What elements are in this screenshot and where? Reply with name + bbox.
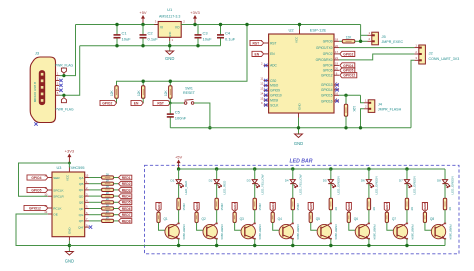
transistor Q8 PMBT3904 xyxy=(431,224,445,238)
svg-text:RST: RST xyxy=(157,101,164,105)
svg-text:PWR_FLAG: PWR_FLAG xyxy=(55,64,74,68)
wire LED to resistor column 3 xyxy=(254,184,256,199)
svg-text:SRCLK: SRCLK xyxy=(53,188,64,192)
svg-text:C5: C5 xyxy=(175,110,181,115)
svg-text:SRCLR: SRCLR xyxy=(53,195,64,199)
svg-text:GPIO2: GPIO2 xyxy=(102,101,112,105)
U3 pin 4 QE xyxy=(85,201,89,203)
wire resistor to collector column 4 xyxy=(292,210,294,224)
U2 pin 4 GPIO16 xyxy=(334,100,339,102)
global label RED6 xyxy=(119,206,132,211)
ground symbol under U2 xyxy=(298,131,300,134)
U2 pin 9 SCLK xyxy=(264,104,269,106)
svg-text:EN: EN xyxy=(270,52,275,56)
global label RED8 xyxy=(119,219,132,224)
shift register U3 74HC595 xyxy=(52,172,85,237)
svg-text:GND: GND xyxy=(65,259,74,264)
svg-text:U2: U2 xyxy=(288,28,294,33)
svg-text:14: 14 xyxy=(260,91,264,95)
svg-text:GPIO12: GPIO12 xyxy=(29,206,41,210)
power +3V3 (regulator output) xyxy=(194,18,196,25)
svg-text:C3: C3 xyxy=(203,31,209,36)
no-connect U2 CS0 xyxy=(264,79,267,82)
LED D8 LED_GREEN xyxy=(444,169,446,179)
regulator U1 AMS1117-3.3 xyxy=(158,22,181,38)
svg-text:Q6: Q6 xyxy=(354,217,358,221)
wire QC to resistor xyxy=(89,189,102,191)
no-connect J3 shield xyxy=(34,122,37,125)
svg-text:PMBT3904: PMBT3904 xyxy=(258,225,262,240)
global label RED4 xyxy=(119,194,132,199)
U2 pin 6 GPIO12 xyxy=(334,74,339,76)
svg-text:GPIO2: GPIO2 xyxy=(343,52,353,56)
svg-text:+5V: +5V xyxy=(175,154,183,159)
wire LED bar gnd rail xyxy=(69,245,445,247)
no-connect U2 GPIO9 xyxy=(264,89,267,92)
U3 pin 13 OE xyxy=(48,213,52,215)
svg-text:GPIO0: GPIO0 xyxy=(323,40,333,44)
svg-text:Q5: Q5 xyxy=(316,217,320,221)
svg-text:12K: 12K xyxy=(164,89,168,96)
svg-text:Q3: Q3 xyxy=(240,217,244,221)
svg-text:EN: EN xyxy=(134,101,139,105)
wire resistor to RED2 label xyxy=(114,183,119,185)
U3 pin 10 SRCLR xyxy=(48,195,52,197)
wire emitter Q5 to gnd rail xyxy=(330,239,332,246)
global label GPIO4 at U2 xyxy=(340,63,355,68)
resistor 2K (QC) xyxy=(102,188,114,191)
svg-text:D1: D1 xyxy=(171,179,175,183)
svg-text:GPIO4: GPIO4 xyxy=(31,176,41,180)
resistor 2K column 5 xyxy=(329,198,332,210)
svg-text:D4: D4 xyxy=(285,179,289,183)
wire base resistor to Q6 base xyxy=(349,223,359,231)
wire VBUS J3 pin1 to +5V rail xyxy=(60,25,76,76)
svg-text:150R: 150R xyxy=(220,202,224,210)
wire LED to resistor column 4 xyxy=(292,184,294,199)
connector J5 JMPR_EXEC xyxy=(372,32,379,45)
svg-text:PMBT3904: PMBT3904 xyxy=(448,225,452,240)
no-connect U2 GPIO16 xyxy=(335,99,338,102)
global label RED7 xyxy=(119,212,132,217)
svg-text:GPIO10: GPIO10 xyxy=(270,94,282,98)
wire resistor to RED5 label xyxy=(114,201,119,203)
svg-text:LED_GREEN: LED_GREEN xyxy=(413,176,417,194)
svg-text:QH: QH xyxy=(79,219,84,223)
svg-text:LED_GREEN: LED_GREEN xyxy=(451,176,455,194)
ground symbol under U1 xyxy=(169,48,171,51)
svg-text:0.1uF: 0.1uF xyxy=(148,37,159,42)
no-connect J3 pin 2 xyxy=(59,79,62,82)
wire LED to resistor column 6 xyxy=(368,184,370,199)
svg-text:PMBT3904: PMBT3904 xyxy=(220,225,224,240)
resistor R4 12K (RST pull-up) xyxy=(169,81,171,86)
transistor Q7 PMBT3904 xyxy=(393,224,407,238)
svg-text:GPIO15: GPIO15 xyxy=(321,94,333,98)
resistor R3 12K (EN pull-up) xyxy=(142,81,144,86)
svg-text:RED6: RED6 xyxy=(347,203,351,212)
wire base resistor to Q8 base xyxy=(425,223,435,231)
LED D5 LED_GREEN xyxy=(330,169,332,179)
svg-text:2K: 2K xyxy=(106,203,110,207)
wire resistor to collector column 7 xyxy=(406,210,408,224)
svg-text:JMPR_EXEC: JMPR_EXEC xyxy=(382,40,404,44)
svg-text:D6: D6 xyxy=(361,179,365,183)
resistor 2K column 7 xyxy=(405,198,408,210)
svg-text:Q8: Q8 xyxy=(430,217,434,221)
global label RED5 at base xyxy=(308,203,313,212)
U2 pin 18 GPIO0 xyxy=(334,40,339,42)
svg-text:RED1: RED1 xyxy=(157,203,161,212)
svg-text:2K: 2K xyxy=(106,179,110,183)
global label GPIO5 at U2 xyxy=(340,68,355,73)
U1 pin 1 GND stub and wire down xyxy=(169,37,171,41)
global label RED7 at base xyxy=(384,203,389,212)
U3 pin 14 SER xyxy=(48,177,52,179)
connector J4 JMPR_FLASH xyxy=(368,100,375,113)
svg-text:+3V3: +3V3 xyxy=(65,148,75,153)
svg-text:12: 12 xyxy=(260,82,264,86)
wire resistor to collector column 1 xyxy=(178,210,180,224)
wire resistor to collector column 8 xyxy=(444,210,446,224)
svg-text:D7: D7 xyxy=(399,179,403,183)
svg-text:2K: 2K xyxy=(334,207,338,211)
U2 pin 3 EN xyxy=(264,53,269,55)
wire emitter Q6 to gnd rail xyxy=(368,239,370,246)
svg-text:GPIO4: GPIO4 xyxy=(343,64,353,68)
J3 pins 1-5 xyxy=(56,75,60,77)
wire GND J3 pin5 to cap rail xyxy=(60,46,80,95)
svg-text:RED7: RED7 xyxy=(385,203,389,212)
svg-text:+5V: +5V xyxy=(139,10,147,15)
svg-text:RED2: RED2 xyxy=(122,182,131,186)
resistor 2K (QG) xyxy=(102,213,114,216)
capacitor C5 100nF xyxy=(169,103,171,114)
global label GPIO12 at U3 RCLK xyxy=(24,205,48,210)
svg-text:20: 20 xyxy=(335,67,339,71)
resistor 2K (QH) xyxy=(102,219,114,222)
svg-text:OE: OE xyxy=(53,212,57,216)
U2 pin 13 GPIO9 xyxy=(264,89,269,91)
no-connect J3 pin 3 xyxy=(59,84,62,87)
LED D4 LED_YELLOW xyxy=(292,169,294,179)
svg-text:GPIO2: GPIO2 xyxy=(323,52,333,56)
transistor Q5 PMBT3904 xyxy=(317,224,331,238)
svg-text:LED_YELLOW: LED_YELLOW xyxy=(260,174,264,194)
capacitor C1 10uF xyxy=(116,25,118,35)
power +5V xyxy=(142,18,144,25)
U2 pin 22 GPIO1/TX0 xyxy=(334,47,339,49)
U2 pin 12 MISO xyxy=(264,84,269,86)
svg-text:LED_RED: LED_RED xyxy=(222,180,226,195)
wire SW1 to gnd rail xyxy=(194,103,210,128)
svg-text:GND: GND xyxy=(165,56,174,61)
svg-text:74HC595: 74HC595 xyxy=(68,166,84,170)
global label RST (pull-up) xyxy=(153,100,170,105)
svg-text:RCLK: RCLK xyxy=(53,206,62,210)
svg-text:PMBT3904: PMBT3904 xyxy=(334,225,338,240)
svg-text:2K: 2K xyxy=(448,207,452,211)
no-connect U2 GPIO14 xyxy=(335,88,338,91)
global label GPIO12 at U2 xyxy=(340,73,357,78)
no-connect U2 ADC xyxy=(264,64,267,67)
svg-text:Q2: Q2 xyxy=(202,217,206,221)
svg-text:GPIO14: GPIO14 xyxy=(321,88,333,92)
global label RED2 xyxy=(119,181,132,186)
svg-text:QF: QF xyxy=(79,207,83,211)
U3 pin 1 QB xyxy=(85,183,89,185)
svg-text:RED7: RED7 xyxy=(122,213,131,217)
wire emitter Q4 to gnd rail xyxy=(292,239,294,246)
wire QB to resistor xyxy=(89,183,102,185)
resistor 150R column 2 xyxy=(215,198,218,210)
wire base resistor to Q5 base xyxy=(311,223,321,231)
U3 pin 11 SRCLK xyxy=(48,189,52,191)
global label GPIO2 (pull-up) xyxy=(100,100,117,105)
svg-text:D5: D5 xyxy=(323,179,327,183)
global label RST at U2 xyxy=(250,40,264,45)
svg-text:2K: 2K xyxy=(106,185,110,189)
wire resistor to RED8 label xyxy=(114,220,119,222)
global label GPIO4 at U3 SER xyxy=(27,175,48,180)
svg-text:JMPR_FLASH: JMPR_FLASH xyxy=(378,108,402,112)
wire 3V3 drop to J5 xyxy=(360,25,362,42)
U3 VCC pin stub xyxy=(68,168,70,173)
svg-text:RED8: RED8 xyxy=(423,203,427,212)
svg-text:12K: 12K xyxy=(346,36,353,40)
global label RED4 at base xyxy=(270,203,275,212)
capacitor C4 0.1uF xyxy=(220,25,222,35)
svg-text:GPIO5: GPIO5 xyxy=(343,69,353,73)
resistor 2K base column 2 xyxy=(196,211,198,214)
resistor 2K base column 5 xyxy=(310,211,312,214)
wire resistor to RED3 label xyxy=(114,189,119,191)
svg-text:12K: 12K xyxy=(137,89,141,96)
svg-text:MOSI: MOSI xyxy=(270,98,278,102)
resistor 2K (QE) xyxy=(102,201,114,204)
resistor R1 12K (GPIO0 pull-up) xyxy=(342,40,355,43)
U2 pin 20 GPIO5 xyxy=(334,69,339,71)
svg-text:RED5: RED5 xyxy=(122,201,131,205)
wire LED to resistor column 8 xyxy=(444,184,446,199)
resistor 2K (QB) xyxy=(102,182,114,185)
U3 pin 9 QH' no-connect xyxy=(85,226,89,228)
global label RED5 xyxy=(119,200,132,205)
svg-text:GPIO3/RX0: GPIO3/RX0 xyxy=(316,58,333,62)
wire resistor to collector column 5 xyxy=(330,210,332,224)
svg-text:21: 21 xyxy=(335,56,339,60)
svg-text:QB: QB xyxy=(79,182,83,186)
svg-text:LED_YELLOW: LED_YELLOW xyxy=(298,174,302,194)
power +3V3 at U3 xyxy=(68,157,70,164)
svg-text:QC: QC xyxy=(79,188,84,192)
U2 pin 17 GPIO2 xyxy=(334,53,339,55)
svg-text:RESET: RESET xyxy=(183,91,196,95)
global label RED1 at base xyxy=(156,203,161,212)
wire J4 pin2 to gnd rail xyxy=(361,109,365,128)
svg-text:PMBT3904: PMBT3904 xyxy=(182,225,186,240)
resistor 2K base column 4 xyxy=(272,211,274,214)
wire +5V rail xyxy=(76,24,159,26)
no-connect U2 MOSI xyxy=(264,98,267,101)
svg-text:ESP-12E: ESP-12E xyxy=(310,28,327,33)
resistor 150R column 4 xyxy=(291,198,294,210)
svg-text:19: 19 xyxy=(335,62,339,66)
svg-text:12K: 12K xyxy=(352,106,356,113)
svg-text:PMBT3904: PMBT3904 xyxy=(410,225,414,240)
svg-text:VO: VO xyxy=(175,26,180,30)
svg-text:RST: RST xyxy=(270,41,276,45)
svg-text:GND: GND xyxy=(298,103,302,111)
wire resistor to RED4 label xyxy=(114,195,119,197)
svg-text:GND: GND xyxy=(68,228,72,234)
resistor 2K base column 8 xyxy=(424,211,426,214)
svg-text:GND: GND xyxy=(169,32,172,38)
global label EN at U2 xyxy=(252,51,264,56)
power +5V at LED bar xyxy=(178,163,180,170)
svg-text:RED6: RED6 xyxy=(122,207,131,211)
svg-text:GPIO9: GPIO9 xyxy=(270,89,280,93)
wire R2 to GPIO2 label xyxy=(116,98,118,103)
svg-text:10uF: 10uF xyxy=(203,37,213,42)
svg-text:C2: C2 xyxy=(148,31,154,36)
wire resistor to RED1 label xyxy=(114,177,119,179)
U1 pin 2 VO stub xyxy=(181,24,185,26)
wire resistor to RED6 label xyxy=(114,208,119,210)
svg-text:PMBT3904: PMBT3904 xyxy=(296,225,300,240)
svg-text:QE: QE xyxy=(79,201,83,205)
svg-text:LED BAR: LED BAR xyxy=(289,158,312,164)
svg-text:0.1uF: 0.1uF xyxy=(225,37,236,42)
LED BAR dashed box xyxy=(145,165,460,254)
wire SRCLR to 3V3 xyxy=(19,163,70,196)
U3 pin 2 QC xyxy=(85,189,89,191)
wire base resistor to Q2 base xyxy=(197,223,207,231)
svg-text:LED_GREEN: LED_GREEN xyxy=(375,176,379,194)
global label GPIO5 at U3 SRCLK xyxy=(27,187,48,192)
svg-text:U1: U1 xyxy=(167,7,173,12)
no-connect U2 GPIO10 xyxy=(264,94,267,97)
svg-text:RED1: RED1 xyxy=(122,176,131,180)
svg-text:RED3: RED3 xyxy=(122,188,131,192)
wire capacitor gnd rail xyxy=(80,45,221,47)
U2 pin 21 GPIO3/RX0 xyxy=(334,59,339,61)
resistor 2K base column 1 xyxy=(158,211,160,214)
svg-text:Q7: Q7 xyxy=(392,217,396,221)
wire LED to resistor column 1 xyxy=(178,184,180,199)
wire J2 pin3 to gnd rail xyxy=(411,60,414,128)
wire LED to resistor column 2 xyxy=(216,184,218,199)
resistor 150R column 3 xyxy=(253,198,256,210)
junction node column 7 xyxy=(405,167,408,170)
connector J3 MICRO USB B xyxy=(30,57,55,123)
U3 pin 7 QH xyxy=(85,220,89,222)
capacitor C3 10uF xyxy=(197,25,199,35)
U2 pin 2 ADC xyxy=(264,64,269,66)
svg-text:MICRO USB B: MICRO USB B xyxy=(33,82,37,102)
svg-text:GPIO12: GPIO12 xyxy=(343,74,355,78)
svg-text:RED2: RED2 xyxy=(195,203,199,212)
global label RED2 at base xyxy=(194,203,199,212)
svg-text:RED3: RED3 xyxy=(233,203,237,212)
wire GPIO0 to R1 xyxy=(339,40,342,42)
svg-text:GPIO13: GPIO13 xyxy=(321,83,333,87)
no-connect U2 GPIO13 xyxy=(335,83,338,86)
svg-text:CS0: CS0 xyxy=(270,79,276,83)
wire R3 to EN label xyxy=(142,98,144,103)
U3 pin 3 QD xyxy=(85,195,89,197)
no-connect U2 SCLK xyxy=(264,103,267,106)
svg-text:12K: 12K xyxy=(110,89,114,96)
capacitor C2 0.1uF xyxy=(142,25,144,35)
LED D3 LED_YELLOW xyxy=(254,169,256,179)
transistor Q1 PMBT3904 xyxy=(165,224,179,238)
wire R4 to RST node xyxy=(169,98,171,103)
svg-text:AMS1117-3.3: AMS1117-3.3 xyxy=(159,15,180,19)
wire R1 to J5 pin2 junction xyxy=(355,40,368,42)
wire emitter Q3 to gnd rail xyxy=(254,239,256,246)
switch SW1 RESET xyxy=(170,102,184,104)
svg-text:MISO: MISO xyxy=(270,84,279,88)
U2 GND pin stub bottom xyxy=(298,113,300,118)
svg-text:GPIO5: GPIO5 xyxy=(323,69,333,73)
wire resistor to collector column 3 xyxy=(254,210,256,224)
global label EN (pull-up) xyxy=(131,100,143,105)
U3 GND pin stub xyxy=(68,237,70,241)
junction node column 2 xyxy=(215,167,218,170)
U2 pin 14 GPIO10 xyxy=(264,94,269,96)
LED D6 LED_GREEN xyxy=(368,169,370,179)
svg-text:13: 13 xyxy=(260,87,264,91)
svg-text:2K: 2K xyxy=(372,207,376,211)
U2 pin 15 MOSI xyxy=(264,99,269,101)
svg-text:GPIO1/TX0: GPIO1/TX0 xyxy=(316,46,333,50)
global label RED3 xyxy=(119,188,132,193)
svg-text:VCC: VCC xyxy=(295,36,299,43)
U2 pin 5 GPIO14 xyxy=(334,89,339,91)
U3 pin 15 QA xyxy=(85,177,89,179)
junction node column 4 xyxy=(291,167,294,170)
LED D2 LED_RED xyxy=(216,169,218,179)
no-connect J3 pin 4 xyxy=(59,89,62,92)
transistor Q4 PMBT3904 xyxy=(279,224,293,238)
U2 pin 1 RST xyxy=(264,42,269,44)
wire mid gnd rail xyxy=(170,127,411,129)
global label RED1 xyxy=(119,175,132,180)
global label RED6 at base xyxy=(346,203,351,212)
svg-text:17: 17 xyxy=(335,50,339,54)
svg-text:11: 11 xyxy=(260,77,263,81)
resistor R2 12K (GPIO2 pull-up) xyxy=(115,86,118,99)
transistor Q6 PMBT3904 xyxy=(355,224,369,238)
wire QE to resistor xyxy=(89,201,102,203)
PWR_FLAG (GND) xyxy=(63,95,65,98)
resistor 2K column 8 xyxy=(443,198,446,210)
wire LED to resistor column 5 xyxy=(330,184,332,199)
resistor 2K base column 7 xyxy=(386,211,388,214)
wire resistor to RED7 label xyxy=(114,214,119,216)
U2 pin 19 GPIO4 xyxy=(334,64,339,66)
svg-text:QD: QD xyxy=(79,194,84,198)
junction node column 1 xyxy=(177,167,180,170)
U3 pin 5 QF xyxy=(85,208,89,210)
wire base resistor to Q4 base xyxy=(273,223,283,231)
svg-text:D3: D3 xyxy=(247,179,251,183)
resistor 2K column 6 xyxy=(367,198,370,210)
svg-text:150R: 150R xyxy=(258,202,262,210)
svg-text:RED4: RED4 xyxy=(122,195,131,199)
svg-text:150R: 150R xyxy=(296,202,300,210)
